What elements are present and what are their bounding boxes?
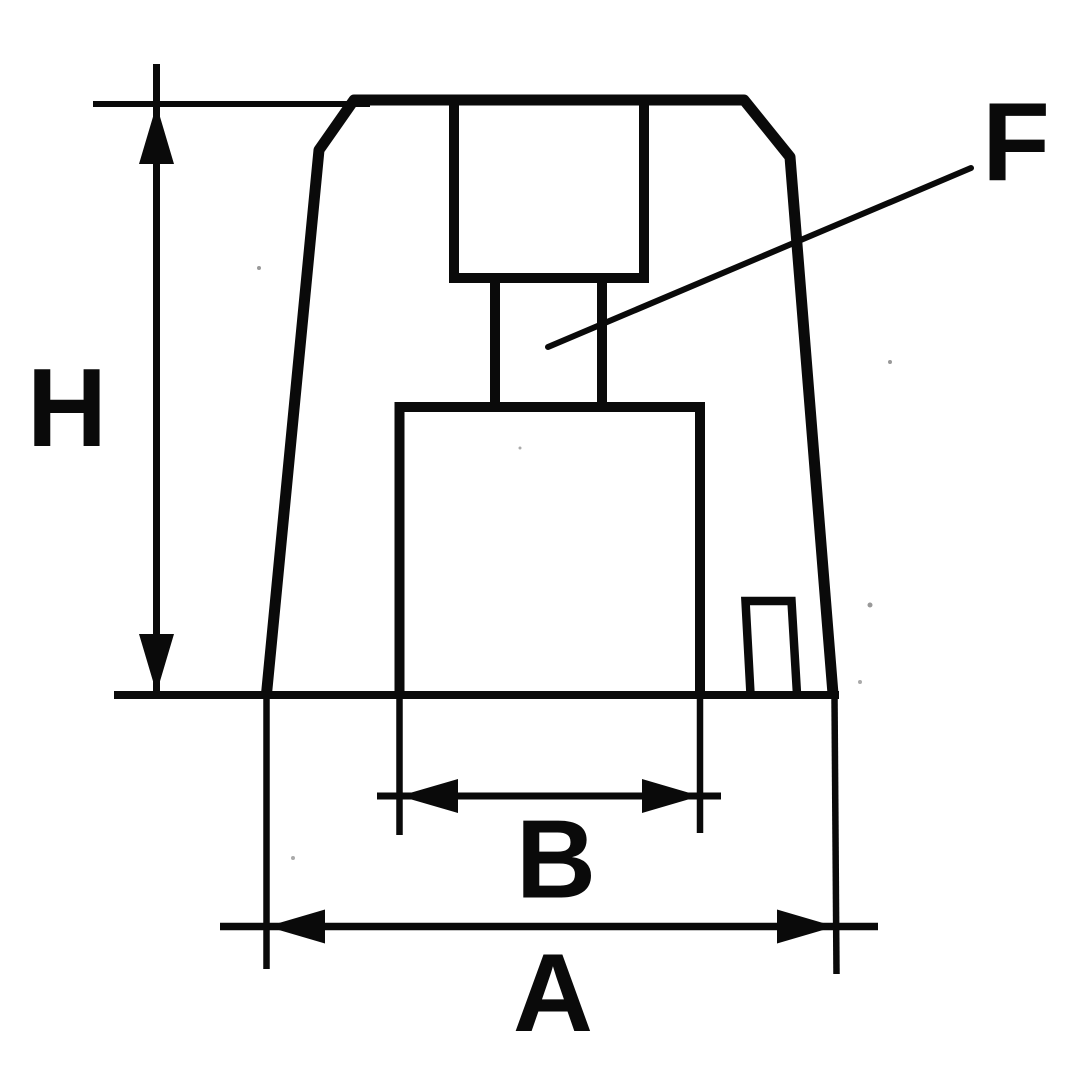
dimension H arrow up: [139, 105, 174, 164]
svg-text:B: B: [516, 798, 596, 922]
svg-text:F: F: [982, 80, 1050, 204]
speck dot 2: [888, 360, 892, 364]
speck dot 1: [257, 266, 261, 270]
dimension A arrow right: [777, 910, 835, 944]
dimension H line: [153, 64, 160, 692]
speck dot 6: [519, 447, 522, 450]
dimension A extension right: [835, 697, 837, 974]
speck dot 4: [858, 680, 862, 684]
small notch rectangle: [746, 601, 798, 694]
dimension H arrow down: [139, 634, 174, 693]
leader line F: [548, 168, 971, 347]
speck dot 3: [868, 603, 873, 608]
inner top cavity rectangle: [454, 100, 644, 278]
dimension A arrow left: [267, 910, 325, 944]
ghost band bottom: [30, 1032, 1050, 1036]
dimension A extension left: [263, 697, 270, 969]
dimension A line: [220, 923, 878, 931]
dimension B arrow left: [400, 779, 459, 813]
speck dot 5: [291, 856, 295, 860]
dimension B extension left: [396, 697, 403, 835]
dimension B line: [377, 793, 721, 800]
stem channel left wall: [490, 274, 500, 411]
base line: [114, 691, 839, 699]
top extension line: [93, 101, 370, 107]
dimension B extension right: [697, 697, 704, 833]
dimension B arrow right: [642, 779, 700, 813]
svg-text:H: H: [27, 346, 107, 470]
svg-text:A: A: [513, 931, 593, 1055]
inner main cavity rectangle: [400, 407, 701, 697]
stem channel right wall: [597, 274, 607, 411]
ghost band top: [35, 32, 1050, 39]
body outline: [267, 100, 834, 694]
